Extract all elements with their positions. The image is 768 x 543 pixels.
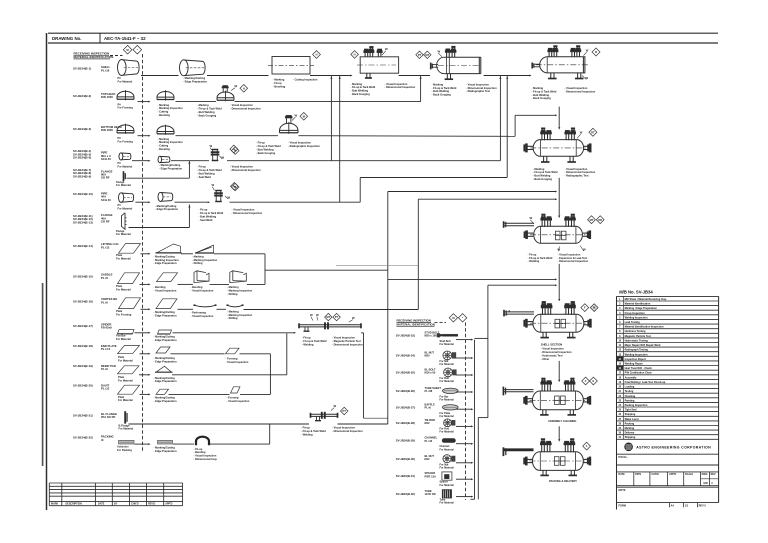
vessel7 center boxes [555, 319, 560, 328]
svg-text:M12: M12 [425, 457, 431, 461]
svg-text:MT: MT [425, 53, 429, 57]
row14 wire to bracket [240, 393, 270, 395]
svg-text:- Dimensional Insp.: - Dimensional Insp. [194, 457, 218, 461]
svg-text:MT: MT [326, 315, 330, 319]
row16 stage2 gasket strip [158, 440, 173, 444]
row6 pipe cylinder icon [119, 193, 124, 203]
svg-text:CH'KD: CH'KD [651, 473, 659, 476]
row11 wire to pipe spool assembly [173, 332, 295, 334]
svg-text:- Radiographic Test: - Radiographic Test [565, 174, 589, 178]
svg-text:- Dimensional Inspection: - Dimensional Inspection [385, 85, 416, 89]
svg-text:- Visual Inspection: - Visual Inspection [232, 208, 255, 212]
vessel9 top nozzles [541, 444, 543, 453]
row13 plate icon [118, 366, 140, 374]
svg-text:22: 22 [618, 395, 621, 398]
svg-text:h: h [586, 444, 588, 448]
svg-text:- Marking Inspection: - Marking Inspection [192, 258, 218, 262]
svg-text:- Expansion & Leak Test: - Expansion & Leak Test [558, 256, 588, 260]
svg-text:- Fit-up & Tack Weld: - Fit-up & Tack Weld [301, 429, 326, 433]
svg-text:1: 1 [619, 298, 621, 301]
row2 wire to main flow [235, 101, 421, 103]
svg-text:- Edge Preparation: - Edge Preparation [154, 261, 177, 265]
row3 head dome icon [117, 125, 134, 131]
svg-text:DR: DR [598, 218, 602, 222]
row8 wire to bracket [214, 253, 265, 255]
vessel5 top nozzles [541, 133, 543, 140]
svg-text:- Marking/Cutting: - Marking/Cutting [159, 163, 181, 167]
svg-text:- Butt Welding: - Butt Welding [197, 171, 215, 175]
svg-text:- Bending: - Bending [194, 450, 206, 454]
pipe spool assembly 2 with valve [311, 413, 338, 415]
svg-text:- Visual Inspection: - Visual Inspection [154, 289, 177, 293]
row11 flat bar icon [118, 330, 135, 334]
svg-text:SV-JB34(B-29): SV-JB34(B-29) [396, 439, 415, 443]
wire feed to vessel7 [388, 278, 556, 280]
svg-text:For Material: For Material [440, 467, 454, 470]
svg-text:- Magnetic Particle Test: - Magnetic Particle Test [332, 339, 361, 343]
spool2 diamond PT [341, 407, 348, 414]
row9 stage3 channel [194, 271, 209, 283]
row2 wire [138, 101, 149, 103]
svg-text:- Fit-up & Tack Weld: - Fit-up & Tack Weld [532, 89, 557, 93]
row14 wire [140, 393, 149, 395]
wire nozzle drop C to row6 [506, 76, 508, 178]
svg-text:- Dimensional Inspection: - Dimensional Inspection [332, 342, 363, 346]
row2 head dome icon [117, 91, 134, 97]
svg-text:NOTE: NOTE [619, 489, 626, 492]
svg-text:PL t9: PL t9 [101, 276, 108, 280]
svg-text:SO RF: SO RF [101, 176, 110, 180]
legend table grid [617, 295, 719, 297]
svg-text:H: H [243, 86, 245, 90]
svg-text:- Butt Welding: - Butt Welding [533, 174, 551, 178]
svg-text:- Dimensional Inspection: - Dimensional Inspection [230, 107, 261, 111]
row4 diamond M [231, 147, 239, 155]
svg-text:- Fit-up: - Fit-up [256, 141, 265, 145]
wire row3 head to vessel5 feed [514, 115, 516, 136]
svg-text:- Visual Inspection: - Visual Inspection [194, 454, 217, 458]
row4 wire [132, 160, 149, 162]
row10 wire [141, 308, 149, 310]
svg-text:W: W [352, 316, 355, 320]
svg-text:- Fit-up & Tack Weld: - Fit-up & Tack Weld [197, 107, 222, 111]
svg-text:Shipping: Shipping [625, 413, 636, 416]
row16 wire to riser [210, 443, 270, 445]
svg-text:- Visual Inspection: - Visual Inspection [226, 360, 249, 364]
svg-text:D/N 1600: D/N 1600 [101, 95, 113, 99]
vessel7 inlet wire [558, 302, 560, 304]
material receiving dashed boundary line [142, 54, 144, 452]
svg-text:SCH 40: SCH 40 [101, 198, 111, 202]
wire nozzle drop B to row4 [499, 76, 501, 161]
svg-text:- Marking: - Marking [273, 78, 285, 82]
svg-text:Inspection Report: Inspection Report [625, 358, 646, 361]
svg-text:- Hydrostatic Test: - Hydrostatic Test [541, 353, 563, 357]
svg-text:W: W [210, 144, 213, 148]
svg-text:8: 8 [619, 330, 621, 333]
row2 diamond H [240, 85, 248, 93]
svg-text:- Marking/Cutting: - Marking/Cutting [154, 445, 176, 449]
svg-text:M: M [233, 184, 235, 188]
svg-text:- Radiographic Inspection: - Radiographic Inspection [288, 144, 320, 148]
svg-text:28: 28 [618, 422, 621, 425]
svg-text:26: 26 [618, 413, 621, 416]
vessel4 left nozzle [531, 63, 533, 69]
svg-text:- Cutting: - Cutting [158, 110, 169, 114]
svg-text:- Fit-up & Tack Weld: - Fit-up & Tack Weld [302, 339, 327, 343]
svg-text:- Visual Inspection: - Visual Inspection [558, 252, 581, 256]
svg-text:REV'D: REV'D [148, 503, 155, 506]
svg-text:FORM: FORM [619, 505, 626, 508]
row12 wire to bracket [240, 353, 271, 355]
vessel7 support legs [542, 332, 544, 337]
svg-text:- Dimensional Inspection: - Dimensional Inspection [541, 350, 572, 354]
svg-text:SV-JB34(B-1): SV-JB34(B-1) [73, 67, 91, 71]
svg-text:For Forming: For Forming [118, 139, 134, 143]
svg-text:10: 10 [618, 339, 621, 342]
svg-text:- Marking: - Marking [227, 285, 239, 289]
svg-text:- Bending: - Bending [154, 285, 166, 289]
svg-text:- Marking: - Marking [351, 82, 363, 86]
svg-text:- Back Gouging: - Back Gouging [533, 177, 553, 181]
svg-text:Cleaning: Cleaning [625, 395, 636, 398]
svg-text:For Material: For Material [118, 378, 133, 382]
svg-text:- Marking: - Marking [227, 309, 239, 313]
svg-text:Marking / Edge Preparation: Marking / Edge Preparation [625, 307, 658, 310]
rows12-14 merge bracket [269, 354, 271, 395]
svg-text:P.W Certification Chart: P.W Certification Chart [625, 372, 652, 375]
svg-text:SV-JB34(B-30): SV-JB34(B-30) [396, 457, 415, 461]
row9 wire [140, 283, 149, 285]
row15 blind flange icon [124, 411, 126, 423]
row1 shell plate cylinder icon [117, 60, 126, 76]
svg-text:- Marking/Cutting: - Marking/Cutting [154, 254, 176, 258]
svg-text:5: 5 [619, 316, 621, 319]
svg-text:- Edge Preparation: - Edge Preparation [154, 314, 177, 318]
stamp diamond M [123, 45, 132, 54]
svg-text:- Back Gouging: - Back Gouging [351, 92, 371, 96]
svg-text:Tight Seal: Tight Seal [625, 409, 637, 412]
svg-text:M: M [452, 316, 454, 320]
row16 wire [135, 443, 149, 445]
svg-text:- Fit-up: - Fit-up [199, 208, 208, 212]
svg-text:20: 20 [618, 386, 621, 389]
svg-text:- Visual Inspection: - Visual Inspection [541, 347, 564, 351]
svg-text:For Material: For Material [119, 427, 134, 431]
wire spool1 drop [363, 333, 365, 418]
svg-text:PIPE 15A: PIPE 15A [425, 474, 437, 478]
svg-text:For Material: For Material [440, 363, 454, 366]
svg-text:- Marking: - Marking [158, 103, 170, 107]
row1 rolled shell course rectangle [272, 57, 310, 75]
svg-text:- Welding: - Welding [301, 432, 313, 436]
vessel4 diamond R [592, 48, 600, 56]
svg-text:- Fit-up: - Fit-up [194, 447, 203, 451]
row3 stage3 dome with manway [280, 123, 299, 130]
svg-text:17: 17 [618, 372, 621, 375]
svg-text:M16 x 60: M16 x 60 [425, 371, 436, 375]
svg-text:4: 4 [619, 312, 621, 315]
row6 wire continues [230, 201, 361, 203]
svg-text:- Dimensional Inspection: - Dimensional Inspection [558, 259, 589, 263]
svg-text:- Cutting: - Cutting [158, 144, 169, 148]
svg-text:SHELL SECTION: SHELL SECTION [541, 343, 563, 347]
svg-text:For Material: For Material [116, 256, 131, 260]
svg-text:- Butt Welding: - Butt Welding [197, 110, 215, 114]
svg-text:*: * [462, 316, 463, 320]
row7 wire to row6 riser [129, 227, 190, 229]
row3 diamond H near text [230, 145, 238, 153]
svg-text:Loading: Loading [625, 386, 635, 389]
svg-text:- Marking: - Marking [158, 137, 170, 141]
svg-text:t3: t3 [101, 438, 104, 442]
svg-text:25: 25 [618, 409, 621, 412]
vessel9 support legs [542, 470, 544, 475]
svg-text:H: H [354, 53, 356, 57]
svg-text:DWG: DWG [702, 473, 708, 476]
row4 pipe cylinder icon [119, 153, 123, 160]
svg-text:- Edge Preparation: - Edge Preparation [159, 166, 182, 170]
svg-text:Hardness Testing: Hardness Testing [625, 330, 646, 333]
svg-text:W: W [295, 114, 298, 118]
svg-text:E: E [593, 379, 595, 383]
tube stamp diamond 2 [458, 314, 466, 322]
row16 gasket strip icon [119, 440, 135, 444]
svg-text:PL t12: PL t12 [101, 387, 110, 391]
wire vessel3 to vessel4 [484, 75, 531, 77]
row12 plate icon [118, 346, 140, 354]
svg-text:- Visual Inspection: - Visual Inspection [466, 82, 489, 86]
svg-text:- Fit-up & Tack Weld: - Fit-up & Tack Weld [528, 256, 553, 260]
svg-text:Assembly: Assembly [625, 376, 637, 379]
svg-text:SV-JB34(B-2): SV-JB34(B-2) [73, 94, 91, 98]
svg-text:SV-JB34(B-20): SV-JB34(B-20) [73, 384, 93, 388]
svg-text:DATE: DATE [98, 503, 105, 506]
svg-text:Mill Sheet / Material Receivin: Mill Sheet / Material Receiving Insp. [625, 298, 668, 301]
svg-text:- Visual Inspection: - Visual Inspection [227, 399, 250, 403]
svg-text:Welding Repair: Welding Repair [625, 363, 643, 366]
svg-text:- Beveling: - Beveling [273, 84, 286, 88]
svg-text:For Material: For Material [116, 287, 131, 291]
vessel4 top nozzles group1 [548, 51, 550, 57]
svg-text:For Material: For Material [118, 207, 133, 211]
row6 flanged pipe spool [215, 190, 217, 202]
svg-text:- Butt Welding: - Butt Welding [432, 89, 450, 93]
row2 stage2 dome [157, 92, 174, 98]
svg-text:- Fit-up: - Fit-up [197, 165, 206, 169]
row14 stage3 small plate [231, 387, 241, 393]
svg-text:- Fit-up & Tack Weld: - Fit-up & Tack Weld [256, 144, 281, 148]
svg-text:3: 3 [619, 307, 621, 310]
vessel5 support legs [543, 156, 545, 162]
svg-text:- Dimensional Inspection: - Dimensional Inspection [466, 86, 497, 90]
wire faint cross link [336, 264, 418, 266]
svg-text:- Dimensional Inspection: - Dimensional Inspection [565, 170, 596, 174]
row1 stage2 rolled cylinder [179, 60, 188, 76]
svg-text:Testing: Testing [625, 390, 634, 393]
pipe spool assembly with flanges [299, 324, 361, 326]
row4 wire continues [227, 160, 500, 162]
svg-text:PL t16: PL t16 [101, 68, 110, 72]
svg-text:- Marking: - Marking [197, 103, 209, 107]
row3 diamond M [300, 113, 308, 121]
svg-text:Leak Testing: Leak Testing [625, 321, 641, 324]
svg-text:- Marking Inspection: - Marking Inspection [154, 258, 180, 262]
svg-text:- Fit-up & Tack Weld: - Fit-up & Tack Weld [197, 168, 222, 172]
svg-text:P/O No.: P/O No. [619, 456, 628, 459]
svg-text:W: W [530, 216, 533, 220]
main parts bus vertical [387, 192, 389, 425]
svg-text:21: 21 [618, 390, 621, 393]
svg-text:- Back Gouging: - Back Gouging [197, 113, 217, 117]
svg-text:For Material: For Material [440, 415, 454, 418]
svg-text:- Butt Welding: - Butt Welding [199, 214, 217, 218]
row3 wire [138, 135, 149, 137]
row9 stage4 channel [230, 271, 247, 283]
svg-text:31: 31 [618, 436, 621, 439]
svg-text:PL t6: PL t6 [425, 406, 432, 410]
svg-text:1/30: 1/30 [703, 482, 708, 485]
vessel6 outlet wire [558, 264, 560, 300]
svg-text:AEC-TA-1541-F ~ 32: AEC-TA-1541-F ~ 32 [104, 36, 146, 41]
title bar [48, 32, 718, 34]
svg-text:Radiograph Testing: Radiograph Testing [625, 349, 649, 352]
svg-text:SV-JB34(B-14): SV-JB34(B-14) [73, 244, 93, 248]
svg-text:- Drilling: - Drilling [192, 261, 203, 265]
company logo [624, 443, 633, 452]
svg-text:11: 11 [619, 344, 622, 347]
svg-text:- Visual Inspection: - Visual Inspection [191, 314, 214, 318]
svg-text:19.05 OD: 19.05 OD [425, 492, 436, 496]
svg-text:M20 x 180: M20 x 180 [425, 334, 438, 338]
diamonds PT MT before vessel3 [416, 51, 423, 58]
row4 flanged pipe spool [212, 149, 214, 161]
svg-text:- Fit-up: - Fit-up [301, 426, 310, 430]
wire to vessel3 [399, 75, 430, 77]
svg-text:- Marking/Cutting: - Marking/Cutting [183, 76, 205, 80]
svg-text:13: 13 [618, 353, 621, 356]
svg-text:- Edge Preparation: - Edge Preparation [155, 207, 178, 211]
svg-text:SV-JB34(B-21): SV-JB34(B-21) [73, 413, 93, 417]
svg-text:SV-JB34(B-23): SV-JB34(B-23) [396, 334, 415, 338]
svg-text:- Visual Inspection: - Visual Inspection [288, 141, 311, 145]
svg-text:ASTRO ENGINEERING CORPORATION: ASTRO ENGINEERING CORPORATION [636, 445, 711, 449]
vessel4 support legs [550, 73, 552, 79]
svg-text:- Back Gouging: - Back Gouging [432, 93, 452, 97]
svg-text:- Forming: - Forming [227, 396, 239, 400]
svg-text:23: 23 [618, 399, 621, 402]
svg-text:For Material: For Material [440, 484, 454, 487]
svg-text:- Visual Inspection: - Visual Inspection [332, 426, 355, 430]
svg-text:7: 7 [619, 326, 621, 329]
svg-text:W: W [385, 47, 388, 51]
svg-text:For Material: For Material [118, 80, 133, 84]
row13 wire [139, 374, 149, 376]
svg-text:- Visual Inspection: - Visual Inspection [230, 165, 253, 169]
svg-text:- Drilling: - Drilling [227, 292, 238, 296]
svg-text:M/B No. SV-JB34: M/B No. SV-JB34 [619, 289, 653, 294]
svg-text:- Back Gouging: - Back Gouging [532, 96, 552, 100]
svg-text:PL t6: PL t6 [101, 300, 108, 304]
svg-text:MT: MT [590, 218, 594, 222]
svg-text:For Material: For Material [116, 337, 131, 341]
svg-text:- Marking/Cutting: - Marking/Cutting [154, 334, 176, 338]
svg-text:15: 15 [618, 363, 621, 366]
svg-text:CHK'D: CHK'D [131, 503, 139, 506]
svg-text:- Marking: - Marking [192, 254, 204, 258]
svg-text:9: 9 [619, 335, 621, 338]
svg-text:SV-JB34(B-13): SV-JB34(B-13) [73, 220, 93, 224]
svg-text:- Cutting Inspection: - Cutting Inspection [293, 78, 318, 82]
vessel shell with head assembly [444, 56, 480, 58]
svg-text:W: W [310, 313, 313, 317]
svg-text:Material Identification: Material Identification [625, 303, 651, 306]
svg-text:- Fit-up & Tack Weld: - Fit-up & Tack Weld [351, 85, 376, 89]
rows8-9 merge bracket [264, 254, 266, 285]
revision table grid [49, 482, 182, 484]
svg-text:PL t9: PL t9 [101, 367, 108, 371]
svg-text:- Edge Preparation: - Edge Preparation [154, 359, 177, 363]
vessel3 top nozzles [446, 51, 448, 57]
row10 wires [178, 308, 194, 310]
vessel3 left nozzle [430, 63, 432, 70]
svg-text:For Material: For Material [440, 431, 454, 434]
svg-text:- Marking/Cutting: - Marking/Cutting [154, 376, 176, 380]
svg-text:SV-JB34(B-3): SV-JB34(B-3) [73, 127, 91, 131]
svg-text:- Marking: - Marking [533, 167, 545, 171]
row8 stage3 wedge lug [196, 245, 214, 253]
svg-text:SV-JB34(B-19): SV-JB34(B-19) [73, 364, 93, 368]
vessel5 heat exchanger shell assembly [533, 140, 583, 157]
left paper edge artifact [42, 283, 44, 466]
svg-text:W: W [212, 183, 215, 187]
svg-text:- Visual Inspection: - Visual Inspection [191, 289, 214, 293]
row12 wire [140, 353, 149, 355]
svg-text:Welding Inspection: Welding Inspection [625, 316, 648, 319]
svg-text:- Dimensional Inspection: - Dimensional Inspection [332, 429, 363, 433]
row12 stage2 small plate [156, 347, 170, 353]
row10 stage2 plate [156, 299, 177, 309]
svg-text:- Visual Inspection: - Visual Inspection [332, 336, 355, 340]
row7 flange tall icon [122, 213, 126, 230]
vessel6 center boxes [555, 231, 560, 240]
svg-text:- Marking Inspection: - Marking Inspection [158, 140, 184, 144]
svg-text:For Forming: For Forming [116, 312, 132, 316]
svg-text:- Visual Inspection: - Visual Inspection [565, 167, 588, 171]
row1 flow wire [141, 75, 179, 77]
svg-text:Material Identification Inspec: Material Identification Inspection [625, 326, 664, 329]
tube return feed to vessel7 [488, 284, 556, 286]
svg-text:For Material: For Material [118, 165, 133, 169]
diamond H before shell-nozzle stage [351, 51, 359, 59]
svg-text:- Fit-up & Tack Weld: - Fit-up & Tack Weld [199, 211, 224, 215]
svg-text:- Seal Weld: - Seal Weld [197, 175, 211, 179]
svg-text:- Marking/Cutting: - Marking/Cutting [154, 395, 176, 399]
vessel shell with heads and nozzles [540, 57, 585, 73]
row8 plate icon [119, 244, 141, 254]
svg-text:6: 6 [619, 321, 621, 324]
svg-text:M12: M12 [425, 421, 431, 425]
svg-text:W: W [235, 84, 238, 88]
tube stamp diamond M [449, 314, 457, 322]
spool2 outlet wire [338, 423, 388, 425]
svg-text:M: M [234, 149, 236, 153]
vessel8 center boxes [555, 396, 560, 405]
vessel6 top nozzles [541, 219, 543, 227]
row2 stage3 dome with fitting [217, 92, 234, 98]
row11 wire [135, 332, 149, 334]
svg-text:- Marking Inspection: - Marking Inspection [158, 106, 184, 110]
